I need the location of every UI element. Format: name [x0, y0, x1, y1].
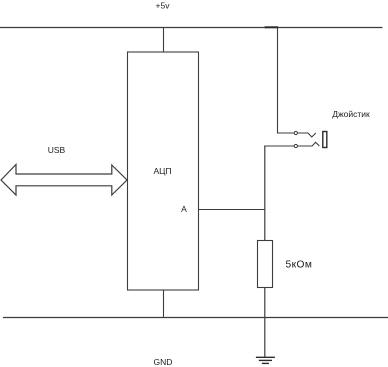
svg-text:АЦП: АЦП — [153, 166, 171, 176]
wire: +5v rail to ADC top pin — [163, 28, 165, 53]
wire: resistor bottom to earth ground — [264, 288, 266, 357]
ADC block АЦП — [128, 52, 199, 290]
earth ground symbol — [256, 357, 275, 363]
joystick switch SW1 top blade — [297, 133, 315, 137]
joystick switch SW1 bottom contact circle — [294, 144, 297, 147]
svg-text:A: A — [181, 204, 187, 214]
GND rail wire — [3, 317, 388, 319]
svg-text:USB: USB — [48, 145, 66, 155]
resistor R 5кОм — [258, 241, 273, 288]
+5v power rail wire — [0, 27, 383, 29]
wire: joystick bottom contact to divider node — [264, 145, 294, 147]
joystick switch SW1 top contact circle — [294, 131, 297, 134]
junction overlap segment on +5v rail — [265, 26, 279, 28]
svg-text:Джойстик: Джойстик — [332, 109, 370, 119]
joystick actuator bar — [323, 132, 327, 148]
wire: ADC bottom pin to GND rail — [163, 290, 165, 318]
wire: vertical divider wire down to resistor — [264, 146, 266, 241]
wire: node A to divider wire — [199, 209, 266, 211]
wire: +5v rail down to joystick common — [278, 28, 295, 134]
svg-text:5кОм: 5кОм — [286, 260, 313, 271]
USB bus double arrow — [1, 165, 127, 196]
svg-text:+5v: +5v — [156, 1, 171, 11]
joystick switch SW1 bottom blade — [297, 142, 319, 146]
svg-text:GND: GND — [154, 357, 173, 367]
